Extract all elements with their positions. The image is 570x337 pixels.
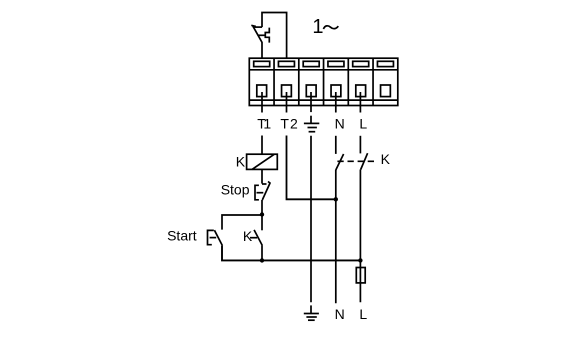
svg-text:N: N xyxy=(335,306,345,322)
svg-text:T2: T2 xyxy=(280,116,298,132)
svg-text:N: N xyxy=(335,115,345,131)
svg-text:L: L xyxy=(359,115,367,131)
svg-text:T1: T1 xyxy=(257,116,271,132)
svg-text:Start: Start xyxy=(167,228,197,244)
svg-text:1: 1 xyxy=(312,16,323,38)
svg-text:K: K xyxy=(243,228,253,244)
svg-text:L: L xyxy=(359,306,367,322)
svg-text:Stop: Stop xyxy=(221,182,250,198)
svg-text:K: K xyxy=(381,151,391,167)
svg-text:K: K xyxy=(236,154,246,170)
